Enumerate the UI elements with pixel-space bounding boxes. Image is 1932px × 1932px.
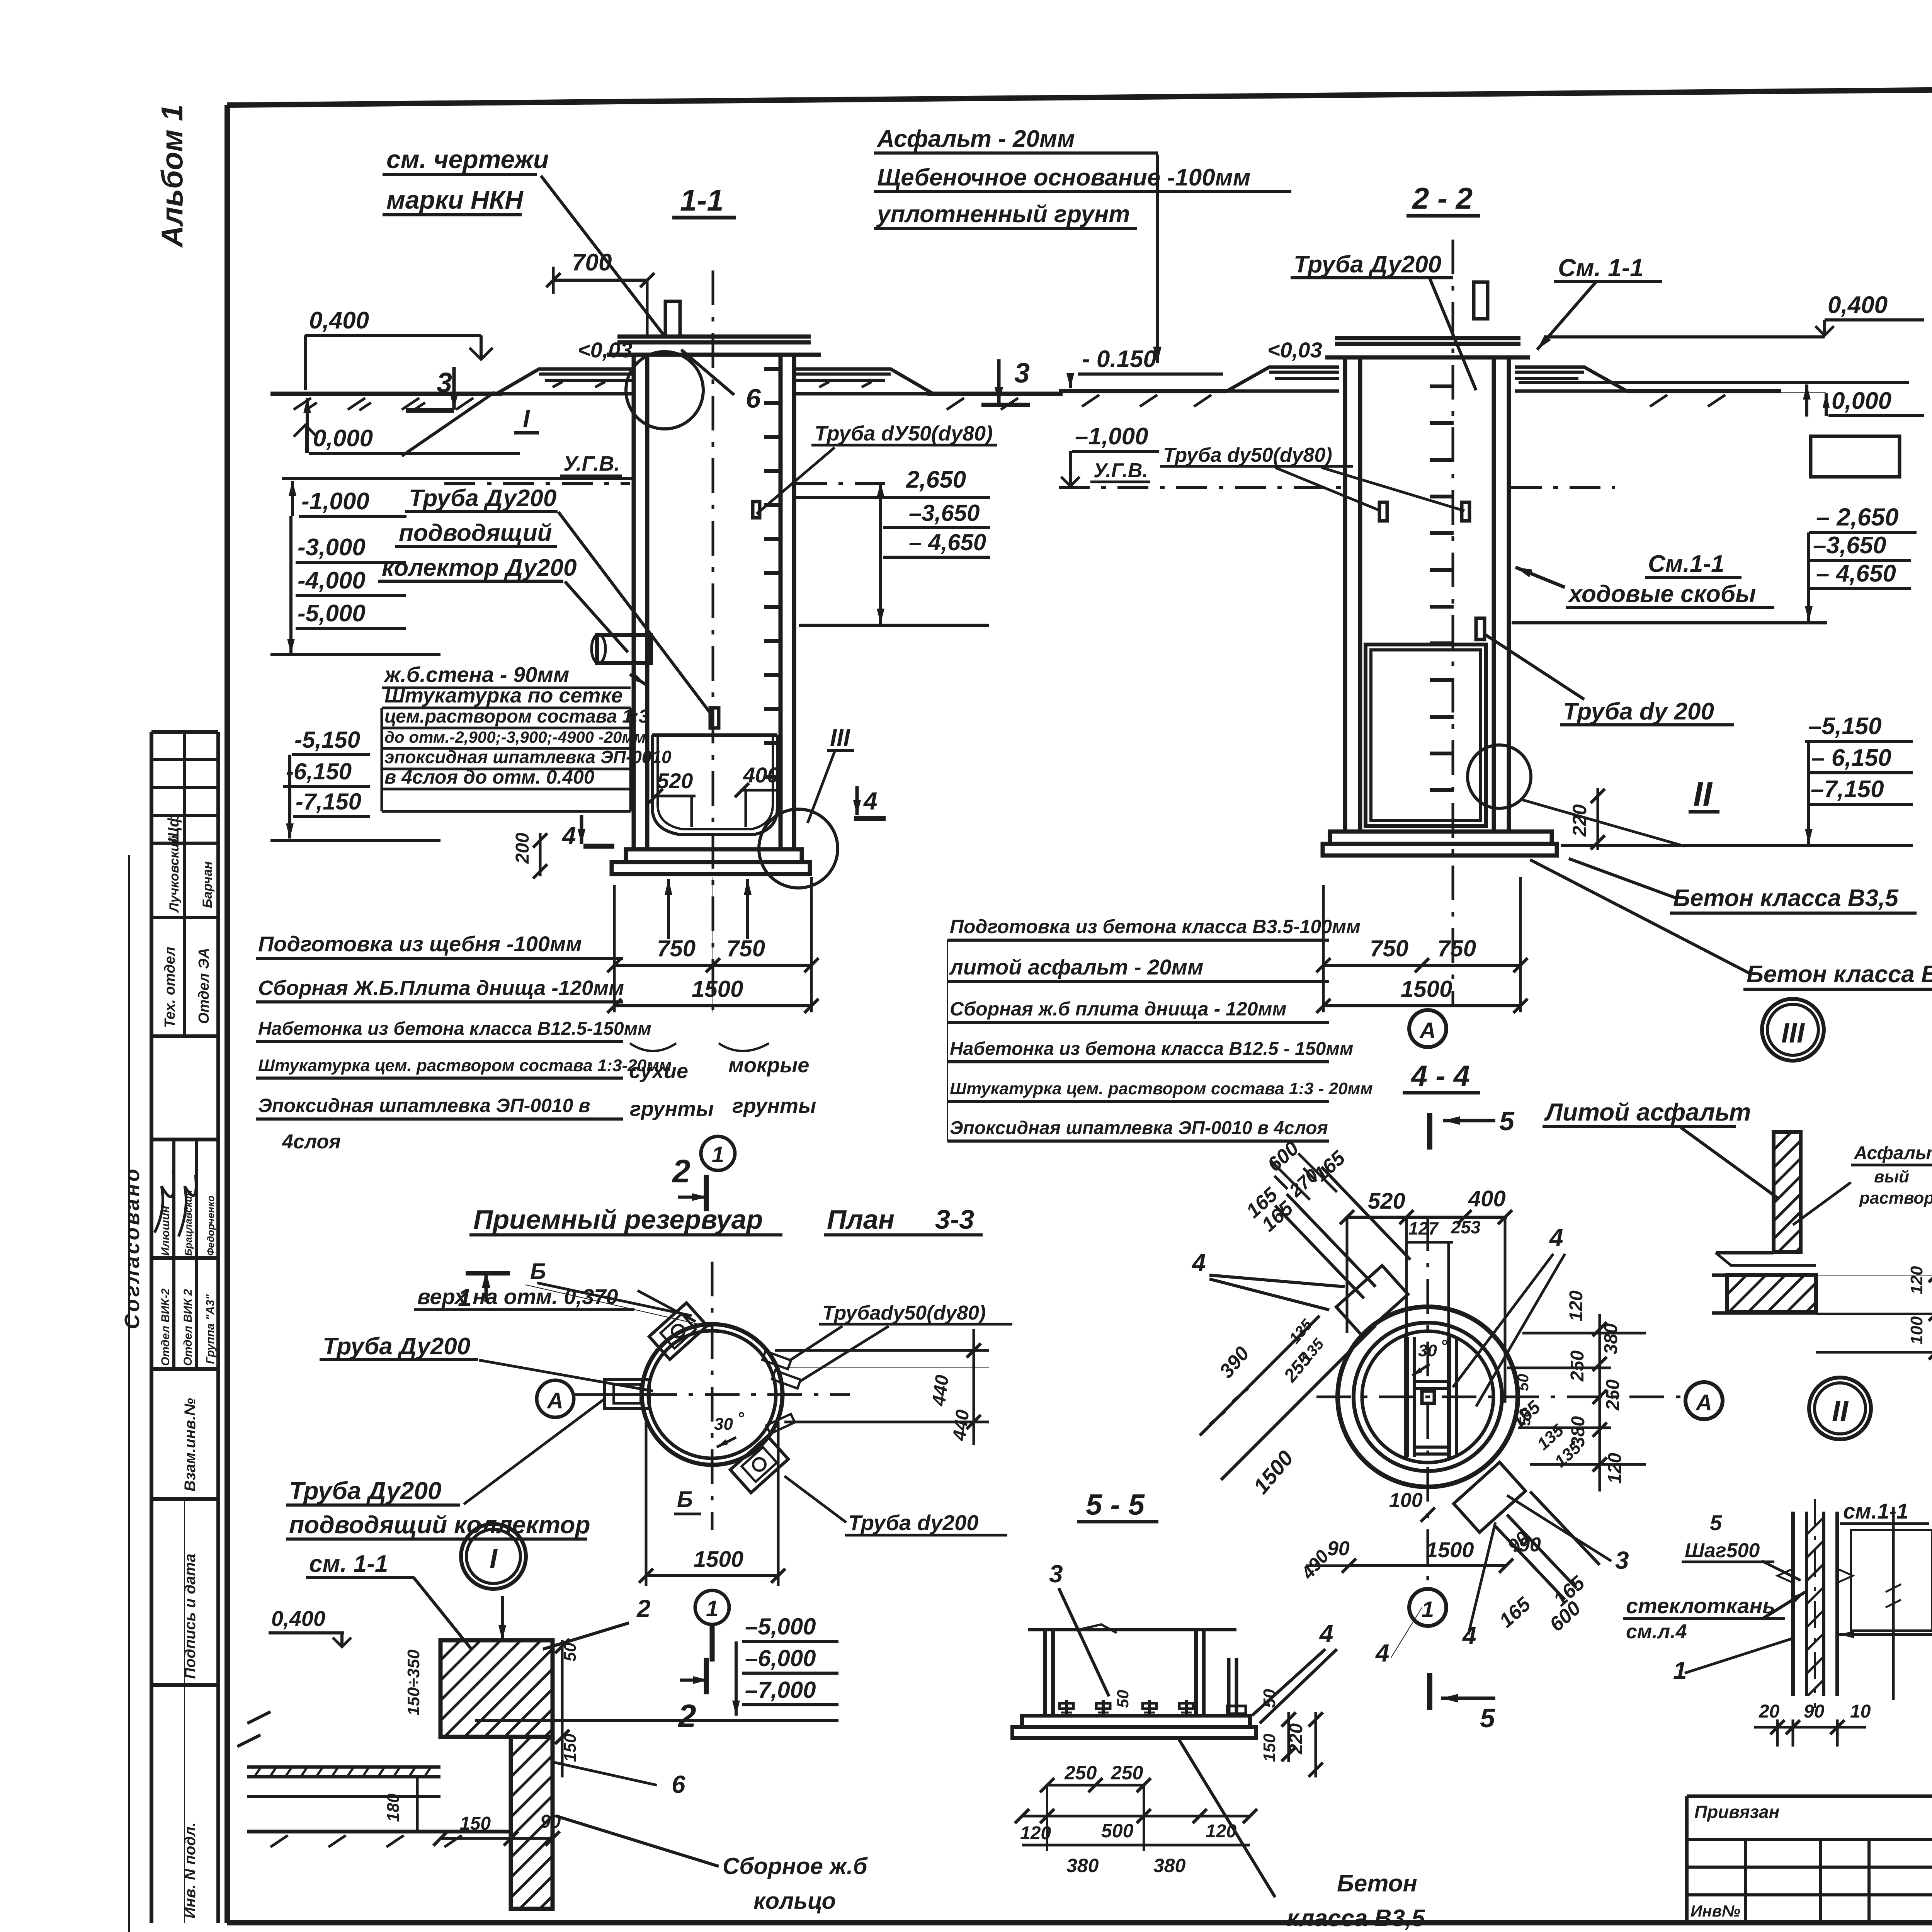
svg-text:-5,150: -5,150 — [294, 727, 360, 753]
svg-text:Штукатурка цем. раствором сост: Штукатурка цем. раствором состава 1:3 - … — [950, 1079, 1373, 1098]
svg-text:°: ° — [737, 1409, 744, 1428]
svg-text:120: 120 — [1907, 1266, 1926, 1294]
svg-text:Привязан: Привязан — [1694, 1802, 1779, 1822]
svg-text:5: 5 — [1499, 1106, 1515, 1136]
svg-text:Асфальто-: Асфальто- — [1854, 1143, 1932, 1163]
5-5 bottom dims — [1047, 1784, 1144, 1787]
svg-text:750: 750 — [1437, 935, 1476, 961]
svg-text:-3,000: -3,000 — [298, 534, 366, 561]
svg-text:А: А — [1695, 1390, 1712, 1415]
5-5 bolts — [1065, 1700, 1068, 1716]
5-5 plates — [1022, 1716, 1250, 1727]
svg-text:–6,000: –6,000 — [745, 1645, 816, 1671]
svg-text:150: 150 — [460, 1813, 491, 1834]
svg-text:Отдел ВИК 2: Отдел ВИК 2 — [182, 1289, 194, 1366]
ground 2-2 — [1059, 389, 1227, 393]
trim line bottom — [128, 855, 130, 1932]
svg-text:0,000: 0,000 — [1832, 388, 1891, 414]
4-4 circles — [1338, 1307, 1518, 1487]
svg-text:Трубаdy50(dy80): Трубаdy50(dy80) — [822, 1302, 986, 1324]
4-4 bottom-right cluster — [1454, 1462, 1526, 1532]
svg-text:Труба dУ50(dy80): Труба dУ50(dy80) — [815, 422, 993, 445]
svg-text:3: 3 — [1615, 1546, 1629, 1574]
svg-text:Эпоксидная шпатлевка ЭП-0010: Эпоксидная шпатлевка ЭП-0010 в — [258, 1095, 590, 1116]
svg-text:30: 30 — [1418, 1341, 1437, 1360]
signature block — [151, 1138, 218, 1141]
wall detail circle 2-2 — [1468, 745, 1531, 808]
svg-text:3-3: 3-3 — [935, 1204, 974, 1235]
svg-text:подводящий коллектор: подводящий коллектор — [289, 1511, 590, 1539]
corner detail concrete block — [440, 1640, 553, 1737]
svg-text:90: 90 — [1804, 1701, 1825, 1722]
svg-text:См.1-1: См.1-1 — [1648, 551, 1724, 577]
svg-text:– 4,650: – 4,650 — [1816, 560, 1896, 587]
axis circle 1 bottom of 1-1 — [701, 1136, 735, 1170]
svg-text:5: 5 — [1710, 1510, 1722, 1535]
svg-text:Сборная Ж.Б.Плита днища -120мм: Сборная Ж.Б.Плита днища -120мм — [258, 976, 624, 1000]
svg-text:-7,150: -7,150 — [296, 789, 361, 815]
dept cells — [151, 1034, 218, 1038]
4-4 bottom arrow 5 — [1427, 1673, 1432, 1710]
svg-text:Лучковский: Лучковский — [167, 835, 182, 913]
svg-text:Подготовка из щебня -100мм: Подготовка из щебня -100мм — [258, 932, 582, 956]
svg-text:250: 250 — [1603, 1379, 1623, 1411]
4-4 section arrow 5 top — [1427, 1113, 1432, 1150]
svg-text:380: 380 — [1066, 1855, 1099, 1876]
svg-text:90: 90 — [540, 1811, 561, 1832]
4-4 center — [1422, 1391, 1434, 1403]
svg-text:Согласовано: Согласовано — [121, 1167, 144, 1329]
axis circle 1 plan — [695, 1590, 729, 1624]
svg-text:700: 700 — [572, 249, 612, 276]
svg-text:– 6,150: – 6,150 — [1811, 745, 1891, 771]
svg-text:Труба Ду200: Труба Ду200 — [1294, 251, 1441, 278]
svg-text:Подготовка из бетона класса В3: Подготовка из бетона класса В3.5-100мм — [950, 916, 1361, 937]
svg-text:марки НКН: марки НКН — [386, 185, 524, 214]
4-4 axes — [1427, 1216, 1429, 1592]
tank 1-1 centerline — [712, 270, 714, 1012]
svg-text:I: I — [523, 405, 530, 432]
tank 2-2 inner liner rect — [1366, 645, 1486, 826]
svg-text:вый: вый — [1874, 1167, 1909, 1186]
5-5 right angle — [1227, 1658, 1231, 1716]
svg-text:Щебеночное основание -100мм: Щебеночное основание -100мм — [877, 164, 1250, 191]
svg-text:класса В3,5: класса В3,5 — [1287, 1905, 1425, 1932]
svg-text:1-1: 1-1 — [680, 183, 724, 217]
tank 2-2 walls — [1343, 357, 1347, 832]
flange top-left — [649, 1303, 707, 1359]
svg-text:см.л.4: см.л.4 — [1626, 1621, 1687, 1643]
5-5 posts — [1043, 1629, 1047, 1716]
svg-text:30: 30 — [714, 1415, 733, 1434]
svg-text:Б: Б — [677, 1487, 693, 1512]
svg-text:Б: Б — [530, 1259, 546, 1284]
A marker plan — [537, 1380, 574, 1417]
svg-text:Шаг500: Шаг500 — [1685, 1539, 1760, 1562]
svg-text:440: 440 — [929, 1374, 953, 1407]
big detail circle I — [461, 1524, 526, 1589]
svg-text:Федорченко: Федорченко — [205, 1196, 216, 1256]
svg-text:250: 250 — [1064, 1762, 1097, 1784]
svg-text:90: 90 — [1519, 1534, 1541, 1556]
ladder rungs 1-1 — [764, 367, 779, 371]
svg-text:4: 4 — [1319, 1620, 1333, 1648]
svg-text:3: 3 — [1014, 358, 1030, 389]
apron 2-2 — [1227, 367, 1339, 391]
arrows up to slab — [667, 879, 670, 939]
svg-text:- 0.150: - 0.150 — [1082, 346, 1156, 372]
svg-text:1: 1 — [458, 1284, 472, 1311]
tank 1-1 walls — [632, 355, 636, 849]
svg-text:253: 253 — [1451, 1217, 1481, 1237]
plan 3-3 circles — [642, 1324, 782, 1465]
svg-text:380: 380 — [1153, 1855, 1186, 1876]
svg-text:127: 127 — [1408, 1218, 1439, 1238]
svg-text:100: 100 — [1389, 1489, 1423, 1512]
svg-text:Труба Ду200: Труба Ду200 — [323, 1333, 470, 1360]
svg-text:1500: 1500 — [694, 1547, 743, 1572]
detail circle I on apron — [626, 352, 703, 429]
tank 1-1 bottom slabs — [626, 849, 802, 862]
svg-text:520: 520 — [1368, 1189, 1405, 1214]
asphalt apron 1-1 — [497, 369, 634, 394]
svg-text:-4,000: -4,000 — [298, 567, 366, 594]
svg-text:400: 400 — [1468, 1186, 1506, 1211]
svg-text:–5,000: –5,000 — [745, 1614, 816, 1639]
svg-text:380: 380 — [1568, 1416, 1588, 1447]
svg-text:<0,03: <0,03 — [578, 338, 633, 362]
svg-text:-5,000: -5,000 — [298, 600, 366, 627]
svg-text:1: 1 — [1673, 1656, 1687, 1684]
svg-text:–5,150: –5,150 — [1808, 713, 1882, 740]
detail circle III — [759, 809, 838, 888]
corner detail floor plates — [247, 1765, 440, 1769]
svg-text:3: 3 — [437, 367, 452, 398]
svg-text:см. 1-1: см. 1-1 — [309, 1551, 388, 1577]
small ports right — [762, 1351, 791, 1369]
svg-text:-6,150: -6,150 — [286, 759, 352, 784]
svg-text:I: I — [490, 1543, 498, 1574]
svg-text:2: 2 — [677, 1698, 696, 1734]
svg-text:Отдел ВИК-2: Отдел ВИК-2 — [159, 1288, 172, 1366]
svg-text:Труба dy 200: Труба dy 200 — [1563, 698, 1714, 725]
svg-text:цем.раствором состава 1:3: цем.раствором состава 1:3 — [384, 706, 649, 727]
tank 1-1 inner liner — [652, 735, 777, 835]
ground surface right — [927, 392, 1063, 396]
svg-text:–7,000: –7,000 — [745, 1677, 816, 1703]
svg-text:4слоя: 4слоя — [282, 1131, 341, 1153]
svg-text:–3,650: –3,650 — [1813, 532, 1886, 559]
svg-text:120: 120 — [1566, 1291, 1587, 1321]
svg-text:см.1-1: см.1-1 — [1843, 1499, 1908, 1523]
svg-text:II: II — [1693, 775, 1713, 813]
svg-text:Сборное ж.б: Сборное ж.б — [723, 1853, 868, 1879]
ground marks corner — [247, 1712, 270, 1723]
svg-text:0,400: 0,400 — [309, 307, 369, 334]
svg-text:120: 120 — [1605, 1453, 1625, 1484]
privyazan extension — [1687, 1794, 1932, 1798]
svg-text:250: 250 — [1567, 1350, 1588, 1382]
svg-text:180: 180 — [384, 1793, 403, 1822]
dept VIK rows — [151, 1367, 218, 1371]
svg-text:2: 2 — [672, 1153, 690, 1189]
guide lines right 440 — [775, 1349, 989, 1352]
svg-text:2 - 2: 2 - 2 — [1412, 181, 1473, 215]
svg-text:Бетон класса В12,5: Бетон класса В12,5 — [1747, 961, 1932, 988]
podpis cell — [151, 1683, 218, 1687]
svg-text:подводящий: подводящий — [399, 520, 552, 546]
svg-text:Эпоксидная шпатлевка ЭП-0010: Эпоксидная шпатлевка ЭП-0010 в 4слоя — [950, 1118, 1328, 1138]
ground surface left — [270, 392, 502, 396]
svg-text:2: 2 — [636, 1595, 651, 1622]
svg-text:4: 4 — [1191, 1249, 1206, 1277]
svg-text:Инв. N подл.: Инв. N подл. — [182, 1822, 199, 1918]
svg-text:Подпись и дата: Подпись и дата — [182, 1554, 199, 1679]
svg-text:до отм.-2,900;-3,900;-4900 -20: до отм.-2,900;-3,900;-4900 -20мм. — [384, 728, 650, 746]
svg-text:–7,150: –7,150 — [1811, 776, 1884, 803]
svg-text:1500: 1500 — [692, 976, 743, 1002]
svg-text:II: II — [1832, 1395, 1849, 1428]
svg-text:колектор Ду200: колектор Ду200 — [382, 554, 577, 581]
svg-text:200: 200 — [512, 833, 533, 864]
svg-text:литой асфальт - 20мм: литой асфальт - 20мм — [949, 955, 1203, 979]
svg-text:Барчан: Барчан — [200, 861, 215, 908]
svg-text:–1,000: –1,000 — [1075, 423, 1148, 450]
legend box right — [1811, 436, 1900, 477]
svg-text:ходовые скобы: ходовые скобы — [1568, 581, 1756, 607]
svg-text:Труба dy50(dy80): Труба dy50(dy80) — [1163, 444, 1332, 466]
4-4 A marker top — [1409, 1010, 1446, 1047]
svg-text:3: 3 — [1049, 1560, 1063, 1588]
svg-text:Бетон: Бетон — [1337, 1870, 1417, 1897]
plan 3-3 axes — [580, 1393, 850, 1396]
tank 2-2 centerline — [1452, 240, 1454, 1005]
svg-text:– 2,650: – 2,650 — [1816, 503, 1899, 531]
4-4 inner channel bars — [1404, 1337, 1409, 1457]
svg-text:У.Г.В.: У.Г.В. — [563, 452, 620, 475]
svg-text:эпоксидная шпатлевка ЭП-0010: эпоксидная шпатлевка ЭП-0010 — [384, 747, 672, 767]
svg-text:500: 500 — [1101, 1820, 1134, 1842]
svg-text:220: 220 — [1569, 804, 1590, 837]
svg-text:ж.б.стена - 90мм: ж.б.стена - 90мм — [383, 662, 569, 687]
tank 2-2 top cover — [1335, 336, 1520, 340]
svg-text:4: 4 — [1549, 1224, 1563, 1252]
svg-text:750: 750 — [726, 935, 765, 961]
svg-text:Щф: Щф — [165, 813, 182, 842]
svg-text:см. чертежи: см. чертежи — [386, 145, 549, 173]
svg-text:III: III — [1781, 1018, 1805, 1049]
svg-text:50: 50 — [1114, 1690, 1132, 1708]
svg-text:Группа "А3": Группа "А3" — [204, 1294, 217, 1364]
svg-text:6: 6 — [672, 1770, 685, 1798]
svg-text:750: 750 — [657, 935, 696, 961]
svg-text:См. 1-1: См. 1-1 — [1558, 254, 1644, 282]
svg-text:Тех. отдел: Тех. отдел — [162, 947, 178, 1028]
svg-text:Литой асфальт: Литой асфальт — [1544, 1098, 1751, 1126]
svg-text:А: А — [1419, 1018, 1436, 1043]
svg-text:1: 1 — [1422, 1597, 1434, 1622]
4-4 top-left cluster — [1336, 1265, 1408, 1335]
svg-text:90: 90 — [1327, 1537, 1350, 1560]
svg-text:°: ° — [1440, 1337, 1447, 1355]
svg-text:150: 150 — [1260, 1733, 1279, 1762]
svg-text:План: План — [827, 1204, 895, 1235]
II detail circle — [1809, 1378, 1871, 1439]
svg-text:5: 5 — [1480, 1703, 1495, 1733]
svg-text:сухие: сухие — [629, 1060, 688, 1083]
svg-text:–3,650: –3,650 — [909, 500, 980, 526]
svg-text:4: 4 — [1375, 1639, 1389, 1667]
svg-text:1500: 1500 — [1401, 976, 1452, 1002]
svg-text:0,000: 0,000 — [313, 425, 373, 452]
svg-text:Труба Ду200: Труба Ду200 — [409, 485, 556, 512]
svg-text:2,650: 2,650 — [906, 466, 966, 493]
svg-text:150÷350: 150÷350 — [404, 1649, 423, 1716]
svg-text:Набетонка из бетона класса В1: Набетонка из бетона класса В12.5 - 150мм — [950, 1039, 1353, 1059]
svg-text:III: III — [830, 724, 850, 751]
III detail circle top — [1762, 999, 1824, 1061]
svg-text:0,400: 0,400 — [271, 1606, 325, 1631]
svg-text:20: 20 — [1759, 1701, 1780, 1722]
svg-text:Отдел ЭА: Отдел ЭА — [196, 948, 212, 1024]
svg-text:4 - 4: 4 - 4 — [1410, 1060, 1470, 1092]
svg-text:5 - 5: 5 - 5 — [1086, 1488, 1145, 1521]
small stud — [710, 708, 719, 728]
tank 2-2 bottom slabs — [1330, 832, 1552, 844]
svg-text:Труба dy200: Труба dy200 — [848, 1510, 979, 1535]
pipe Du200 inlet — [597, 635, 651, 663]
svg-text:Труба Ду200: Труба Ду200 — [289, 1477, 442, 1505]
svg-text:6: 6 — [746, 383, 761, 413]
svg-text:0,400: 0,400 — [1828, 292, 1888, 318]
svg-text:кольцо: кольцо — [753, 1888, 836, 1914]
section mark 1 left — [466, 1271, 510, 1276]
svg-text:Альбом 1: Альбом 1 — [155, 104, 189, 248]
svg-text:10: 10 — [1850, 1701, 1871, 1722]
svg-text:50: 50 — [1515, 1374, 1532, 1391]
svg-text:<0,03: <0,03 — [1267, 338, 1322, 362]
svg-text:стеклоткань: стеклоткань — [1626, 1594, 1776, 1618]
svg-text:50: 50 — [1517, 1409, 1534, 1426]
rungs dashes — [1430, 384, 1454, 388]
svg-text:верх на отм. 0,370: верх на отм. 0,370 — [417, 1284, 618, 1309]
svg-text:уплотненный грунт: уплотненный грунт — [876, 201, 1130, 228]
wall detail — [1791, 1512, 1795, 1696]
svg-text:4: 4 — [561, 822, 576, 850]
svg-text:50: 50 — [1260, 1689, 1279, 1708]
svg-text:Набетонка из бетона класса В12: Набетонка из бетона класса В12.5-150мм — [258, 1019, 651, 1039]
svg-text:У.Г.В.: У.Г.В. — [1094, 459, 1148, 482]
tank 2-2 cap stub — [1474, 282, 1488, 319]
svg-text:Инв№: Инв№ — [1690, 1902, 1740, 1920]
sheet frame — [227, 82, 1932, 105]
asphalt detail — [1774, 1132, 1801, 1252]
svg-text:1: 1 — [706, 1596, 718, 1621]
svg-text:Асфальт - 20мм: Асфальт - 20мм — [876, 126, 1075, 152]
svg-text:Штукатурка цем. раствором сост: Штукатурка цем. раствором состава 1:3-20… — [258, 1056, 672, 1075]
svg-text:мокрые: мокрые — [728, 1054, 809, 1077]
vzam inv cell — [151, 1497, 218, 1501]
svg-text:Приемный резервуар: Приемный резервуар — [473, 1204, 763, 1235]
svg-text:250: 250 — [1111, 1762, 1143, 1784]
tank 1-1 top cover — [617, 335, 811, 339]
flange left — [605, 1379, 649, 1408]
svg-text:А: А — [546, 1388, 563, 1413]
svg-text:1500: 1500 — [1426, 1537, 1474, 1562]
left stamp column — [150, 732, 153, 1923]
svg-text:750: 750 — [1370, 935, 1408, 961]
flange bottom-right — [730, 1436, 788, 1493]
4-4 axis circle 1 — [1409, 1589, 1446, 1626]
4-4 right dim chain — [1599, 1314, 1601, 1492]
svg-text:-1,000: -1,000 — [301, 488, 369, 515]
svg-text:Взам.инв.№: Взам.инв.№ — [182, 1398, 199, 1492]
svg-text:грунты: грунты — [732, 1094, 816, 1117]
svg-text:1: 1 — [712, 1142, 724, 1167]
svg-text:Бетон класса В3,5: Бетон класса В3,5 — [1673, 885, 1899, 912]
svg-text:раствор: раствор — [1859, 1189, 1932, 1207]
svg-text:грунты: грунты — [630, 1097, 714, 1121]
svg-text:380: 380 — [1601, 1323, 1621, 1354]
svg-text:100: 100 — [1907, 1316, 1926, 1345]
svg-text:4: 4 — [863, 787, 878, 815]
svg-text:Сборная ж.б плита днища - 1: Сборная ж.б плита днища - 120мм — [950, 998, 1286, 1020]
A marker right — [1685, 1382, 1723, 1419]
svg-text:– 4,650: – 4,650 — [909, 529, 986, 555]
